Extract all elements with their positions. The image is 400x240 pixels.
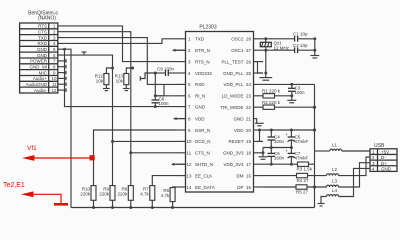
inductor L3 xyxy=(327,163,371,187)
svg-text:CTS: CTS xyxy=(38,30,47,35)
USB pin labels xyxy=(372,150,392,172)
svg-text:C1 10p: C1 10p xyxy=(293,32,308,37)
svg-text:POWER: POWER xyxy=(30,59,48,64)
svg-text:GND: GND xyxy=(37,47,48,52)
wire RI_N to U1 pin6 xyxy=(155,95,176,97)
svg-text:VDD_3V3: VDD_3V3 xyxy=(223,162,244,167)
wire PLL_TEST pin26 tied down to GND_PLL xyxy=(254,62,264,73)
node C3 bottom / R1 xyxy=(290,94,293,97)
svg-text:17: 17 xyxy=(246,162,252,167)
inductor L4 xyxy=(318,168,371,206)
node C3 top xyxy=(290,83,293,86)
svg-text:R1 220 k: R1 220 k xyxy=(262,89,281,94)
ground at GND_PLL pin25 xyxy=(259,72,272,81)
svg-text:VDD_PLL: VDD_PLL xyxy=(223,82,244,87)
svg-text:+5V: +5V xyxy=(381,150,389,155)
svg-text:15: 15 xyxy=(246,185,252,190)
svg-text:220k: 220k xyxy=(99,192,110,197)
svg-text:USB: USB xyxy=(374,143,385,149)
svg-text:220k: 220k xyxy=(118,192,129,197)
svg-text:DCD_N: DCD_N xyxy=(195,139,211,144)
capacitor C8 100n xyxy=(152,73,170,108)
svg-text:RI_N: RI_N xyxy=(195,94,205,99)
VDD_3V3 rail pin17 xyxy=(263,163,298,166)
svg-text:R3 1.5k: R3 1.5k xyxy=(297,167,313,172)
connector J1 body xyxy=(20,23,58,93)
svg-text:LD_MODE: LD_MODE xyxy=(222,94,244,99)
ground at U1 pin21 GND xyxy=(255,119,264,126)
svg-text:18: 18 xyxy=(246,151,252,156)
wire OSC2 xyxy=(263,38,295,40)
resistor R4 27 on DM xyxy=(263,173,327,183)
svg-text:24: 24 xyxy=(246,82,252,87)
resistor R7 4.7k / wire to U1 pin13 EE_CLK xyxy=(140,176,176,209)
IC U1 PL2303 body xyxy=(186,32,254,193)
svg-text:11: 11 xyxy=(187,151,192,156)
svg-text:CTS_N: CTS_N xyxy=(195,151,210,156)
svg-text:27: 27 xyxy=(246,48,252,53)
svg-text:R2 220 k: R2 220 k xyxy=(262,100,281,105)
svg-text:100n: 100n xyxy=(274,139,285,144)
resistor R8 220k xyxy=(118,151,134,209)
svg-text:DM: DM xyxy=(237,173,244,178)
svg-text:14: 14 xyxy=(187,185,193,190)
inductor L1 xyxy=(330,143,370,152)
wire GND branch to U1 pin7 GND xyxy=(65,49,177,106)
U1 right pin stubs xyxy=(254,39,264,187)
svg-text:25: 25 xyxy=(246,71,252,76)
red arrow to bottom rail xyxy=(21,191,68,204)
svg-text:R5 27: R5 27 xyxy=(296,189,309,194)
wire GND row6 across to R12/R13 drop xyxy=(58,55,176,141)
svg-text:EE_CLK: EE_CLK xyxy=(195,173,212,178)
wire +5V from rail to L1 xyxy=(315,150,330,152)
svg-text:21: 21 xyxy=(246,116,252,121)
nc mark at U1 pin2 DTR_N xyxy=(172,49,186,52)
svg-text:23: 23 xyxy=(246,94,252,99)
nc mark at U1 pin8 xyxy=(173,117,186,120)
svg-text:C2 10p: C2 10p xyxy=(293,43,308,48)
capacitor C2 10p xyxy=(293,43,315,53)
connector J1 pin numbers xyxy=(51,24,57,93)
svg-text:RESET: RESET xyxy=(228,139,243,144)
svg-text:13: 13 xyxy=(187,173,193,178)
U1 left pin numbers and names xyxy=(187,37,215,190)
wire OSC1 node down to GND_PLL xyxy=(265,50,267,73)
svg-text:+: + xyxy=(286,132,289,137)
svg-text:4.7k: 4.7k xyxy=(161,193,170,198)
wire GND row5 down to bottom rail xyxy=(58,49,71,207)
svg-text:+: + xyxy=(286,149,289,154)
resistor R10 220k xyxy=(80,186,96,209)
connector nc stubs rows 7-12 xyxy=(58,59,66,92)
node row5 branch xyxy=(63,48,66,51)
ground below C3 xyxy=(287,96,296,103)
wire RI_N branch from RXD line xyxy=(155,84,164,95)
svg-text:GND: GND xyxy=(234,116,245,121)
svg-text:10k: 10k xyxy=(116,79,124,84)
svg-text:C9 100n: C9 100n xyxy=(157,67,175,72)
red arrow to GND wire xyxy=(22,155,95,161)
svg-text:AudioGND: AudioGND xyxy=(25,82,47,87)
svg-text:GND_3V3: GND_3V3 xyxy=(223,151,244,156)
svg-text:R4 27: R4 27 xyxy=(297,178,310,183)
U1 right pin numbers and names xyxy=(220,37,251,190)
GND mid rail xyxy=(259,146,293,159)
svg-text:12: 12 xyxy=(51,88,57,93)
resistor R6 4.7k / wire to U1 pin14 EE_DATA xyxy=(161,187,176,209)
wire DSR: R10 top to U1 pin9 xyxy=(94,130,177,186)
svg-text:11: 11 xyxy=(52,82,57,87)
nc mark at U1 pin12 SHTD_N xyxy=(171,163,186,166)
svg-text:PLL_TEST: PLL_TEST xyxy=(221,59,243,64)
wire VDD pin20 rail xyxy=(263,129,315,131)
svg-text:GND: GND xyxy=(195,104,206,109)
svg-text:GND_MI: GND_MI xyxy=(29,65,47,70)
svg-text:GND_PLL: GND_PLL xyxy=(223,71,244,76)
resistor R9 220k xyxy=(99,140,115,209)
svg-text:(NANO): (NANO) xyxy=(38,16,56,22)
svg-text:10: 10 xyxy=(187,139,193,144)
wire VDD_PLL pin24 to main vertical xyxy=(263,83,315,85)
wire CTS: row2 to U1 pin11 CTS_N xyxy=(58,32,176,153)
main right vertical rail xyxy=(314,84,316,207)
svg-text:GND: GND xyxy=(381,166,392,171)
crystal Q1 12MHz xyxy=(260,37,289,51)
svg-text:26: 26 xyxy=(246,59,252,64)
nc tick on row6 wire xyxy=(82,52,87,55)
svg-text:MIC: MIC xyxy=(39,70,48,75)
crystal caps ground xyxy=(310,37,319,58)
svg-text:16: 16 xyxy=(246,173,252,178)
svg-text:L2: L2 xyxy=(332,167,338,172)
svg-text:Audio-: Audio- xyxy=(34,88,48,93)
resistor R1 220k on LD_MODE xyxy=(262,89,292,99)
svg-text:DTR_N: DTR_N xyxy=(195,48,210,53)
capacitor C7 47mkF polarized xyxy=(286,148,309,165)
svg-text:DSR_N: DSR_N xyxy=(195,128,210,133)
svg-text:OSC1: OSC1 xyxy=(231,48,244,53)
svg-text:VDD: VDD xyxy=(234,128,244,133)
capacitor C5 47mkF polarized xyxy=(286,129,309,148)
svg-text:SHTD_N: SHTD_N xyxy=(195,162,213,167)
svg-text:Vf1: Vf1 xyxy=(27,145,37,152)
svg-text:TXD: TXD xyxy=(195,37,205,42)
svg-text:4.7k: 4.7k xyxy=(140,192,149,197)
svg-text:12 MHz: 12 MHz xyxy=(274,46,290,51)
svg-text:RXD: RXD xyxy=(37,41,47,46)
USB connector body xyxy=(370,149,397,172)
svg-text:L1: L1 xyxy=(332,143,338,148)
resistor R2 220k on TRI_MODE xyxy=(262,100,315,109)
svg-text:GND: GND xyxy=(37,53,48,58)
svg-text:19: 19 xyxy=(246,139,252,144)
svg-text:DP: DP xyxy=(237,185,243,190)
bottom ground rail xyxy=(71,207,315,209)
svg-text:100n: 100n xyxy=(274,156,285,161)
resistor R12 10k xyxy=(95,67,114,91)
svg-text:RTS_N: RTS_N xyxy=(195,59,210,64)
resistor R5 27 on DP xyxy=(263,185,327,195)
wire RESET pin19 tied to VDD xyxy=(258,129,263,142)
svg-text:OSC2: OSC2 xyxy=(231,37,244,42)
svg-text:100n: 100n xyxy=(295,90,306,95)
U1 left pin stubs xyxy=(176,39,186,187)
wire RTS: row1 to U1 pin3 RTS_N xyxy=(58,26,176,62)
svg-text:RXD: RXD xyxy=(195,82,205,87)
svg-text:PL2303: PL2303 xyxy=(199,25,216,31)
inductor L2 xyxy=(327,157,371,176)
capacitor C4 100n xyxy=(268,129,285,148)
svg-text:20: 20 xyxy=(246,128,252,133)
capacitor C9 100n on VDD325 line xyxy=(140,67,176,81)
svg-text:Te2,E1: Te2,E1 xyxy=(3,182,25,189)
svg-text:VDD232: VDD232 xyxy=(195,71,213,76)
svg-text:28: 28 xyxy=(246,37,252,42)
capacitor C1 10p xyxy=(293,32,315,42)
svg-text:Audio+: Audio+ xyxy=(33,76,48,81)
wire OSC1 xyxy=(263,49,295,51)
svg-text:220k: 220k xyxy=(80,192,91,197)
node R2 / main vertical xyxy=(313,106,316,109)
wire RXD: row4 to U1 pin1 TXD xyxy=(58,39,176,44)
svg-text:47mkF: 47mkF xyxy=(295,139,309,144)
svg-text:TXD: TXD xyxy=(38,35,48,40)
capacitor C3 100n xyxy=(288,84,305,95)
svg-text:EE_DATA: EE_DATA xyxy=(195,185,215,190)
svg-text:47mkF: 47mkF xyxy=(295,156,309,161)
svg-text:RTS: RTS xyxy=(38,24,47,29)
resistor R13 10k xyxy=(115,67,134,91)
svg-text:100n: 100n xyxy=(159,101,170,106)
wire TXD: row3 to U1 pin5 RXD xyxy=(58,38,176,85)
svg-text:L3: L3 xyxy=(332,179,338,184)
node DP junction xyxy=(313,185,316,188)
connector J1 title xyxy=(28,11,58,22)
svg-text:10k: 10k xyxy=(96,79,104,84)
capacitor C6 100n xyxy=(268,148,285,165)
svg-text:D-: D- xyxy=(381,155,386,160)
svg-text:D+: D+ xyxy=(381,161,387,166)
svg-text:VDD: VDD xyxy=(195,116,205,121)
resistor R3 1.5k pullup DP xyxy=(297,162,315,172)
svg-text:12: 12 xyxy=(187,162,193,167)
svg-text:TRI_MODE: TRI_MODE xyxy=(220,105,243,110)
svg-text:10: 10 xyxy=(51,76,57,81)
svg-text:L4: L4 xyxy=(332,188,338,193)
svg-text:22: 22 xyxy=(246,105,252,110)
connector J1 pin labels xyxy=(25,24,47,93)
